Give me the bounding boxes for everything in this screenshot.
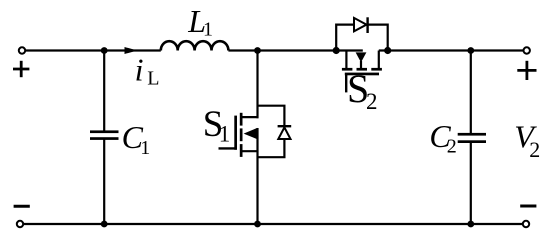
svg-text:1: 1 [219,122,231,147]
node H (C2 bottom junction) [467,221,474,228]
transistor S2 drain stub [378,51,380,69]
diode D2 branch [336,25,388,51]
plus sign output [517,61,536,80]
svg-text:1: 1 [140,137,150,159]
capacitor C2 [458,133,486,143]
label C1 [122,119,151,159]
svg-text:L: L [147,68,159,90]
transistor S2 channel bars [342,68,382,71]
plus sign input [13,61,29,77]
output terminal top-right [524,47,530,53]
svg-text:1: 1 [203,19,213,41]
transistor S2 body arrow [356,52,367,69]
wire S1 source vertical [256,128,258,224]
input terminal bottom-left [17,221,23,227]
diode D1 cathode bar [278,125,292,127]
transistor S1 gate bar [234,116,237,150]
diode D1 triangle [278,127,290,139]
node A (input/C1 junction) [101,47,108,54]
node D (S2 drain junction) [384,47,391,54]
label S1 [203,104,231,147]
capacitor C1 [90,130,119,140]
svg-text:2: 2 [366,89,378,114]
transistor S2 gate lead [345,74,347,92]
wire C1 branch upper [103,51,105,132]
input terminal top-left [19,47,25,53]
minus sign output [520,205,536,208]
svg-text:i: i [135,52,144,88]
transistor S1 drain lead [240,116,259,118]
label C2 [429,118,456,158]
svg-text:2: 2 [447,136,457,158]
transistor S1 gate lead [219,147,237,149]
output terminal bottom-right [523,221,529,227]
node E (output/C2 junction top) [467,47,474,54]
wire top from input to inductor [25,49,160,51]
diode D2 cathode bar [366,17,368,33]
transistor S2 gate bar [345,73,379,76]
minus sign input [14,205,30,208]
label V2 [514,118,540,161]
node F (C1 bottom junction) [101,221,108,228]
wire C2 branch lower [470,142,472,224]
wire top from S2 drain to output [379,49,523,51]
wire bottom rail [23,223,523,225]
inductor L1 [161,41,229,50]
label iL [135,52,160,90]
node C (S2 source junction) [333,47,340,54]
transistor S1 source lead [240,150,259,152]
diode D2 triangle [354,18,367,31]
transistor S2 source stub [345,51,347,69]
label L1 [187,3,213,40]
node B (L1/S1 junction) [254,47,261,54]
transistor S1 body arrow [244,128,258,139]
transistor S1 channel bars [240,113,243,157]
wire C1 branch lower [103,139,105,224]
wire C2 branch upper [470,51,472,135]
node G (S1 bottom junction) [254,221,261,228]
wire S1 drain vertical [256,51,258,119]
svg-text:2: 2 [529,137,540,162]
wire top from inductor to S2 source overhang [228,49,362,51]
current arrow iL [125,47,138,54]
label S2 [347,66,378,114]
diode D1 branch top [258,106,285,127]
diode D1 branch bottom [258,139,285,157]
